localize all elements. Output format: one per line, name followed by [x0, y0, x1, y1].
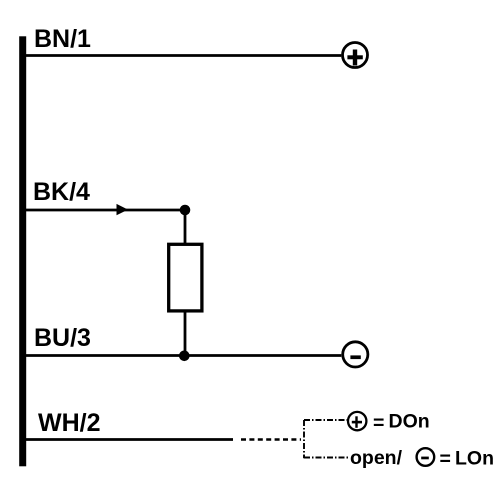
- resistor: [169, 244, 202, 311]
- svg-text:BK/4: BK/4: [33, 178, 90, 206]
- node junction on BU/3: [179, 351, 190, 362]
- terminal + small (DOn): [348, 412, 366, 430]
- node junction on BK/4: [180, 205, 191, 216]
- svg-text:WH/2: WH/2: [38, 409, 101, 437]
- dash-dot branch upper: [304, 419, 347, 421]
- wire BK/4: [26, 209, 185, 212]
- svg-text:BU/3: BU/3: [34, 324, 91, 352]
- svg-text:LOn: LOn: [455, 448, 494, 470]
- svg-text:open/: open/: [350, 447, 403, 469]
- supply rail (vertical bus bar): [19, 36, 26, 466]
- wire node to resistor: [184, 210, 187, 244]
- arrow on BK/4 wire: [117, 204, 129, 215]
- terminal + (plus) U+2295: [343, 43, 368, 68]
- wire resistor to BU/3: [184, 311, 187, 356]
- dash-dot branch vertical: [303, 420, 305, 458]
- dash-dot branch lower: [304, 457, 348, 459]
- svg-text:=: =: [373, 412, 384, 434]
- terminal - (minus) U+2296: [343, 342, 368, 367]
- wire BN/1: [26, 54, 341, 57]
- wire WH/2: [26, 438, 233, 441]
- svg-text:=: =: [440, 448, 451, 470]
- wire BU/3: [26, 354, 341, 357]
- terminal - small (LOn): [417, 448, 435, 466]
- dashed wire WH/2 extension: [241, 438, 301, 440]
- svg-text:DOn: DOn: [389, 411, 430, 433]
- svg-text:BN/1: BN/1: [34, 25, 91, 53]
